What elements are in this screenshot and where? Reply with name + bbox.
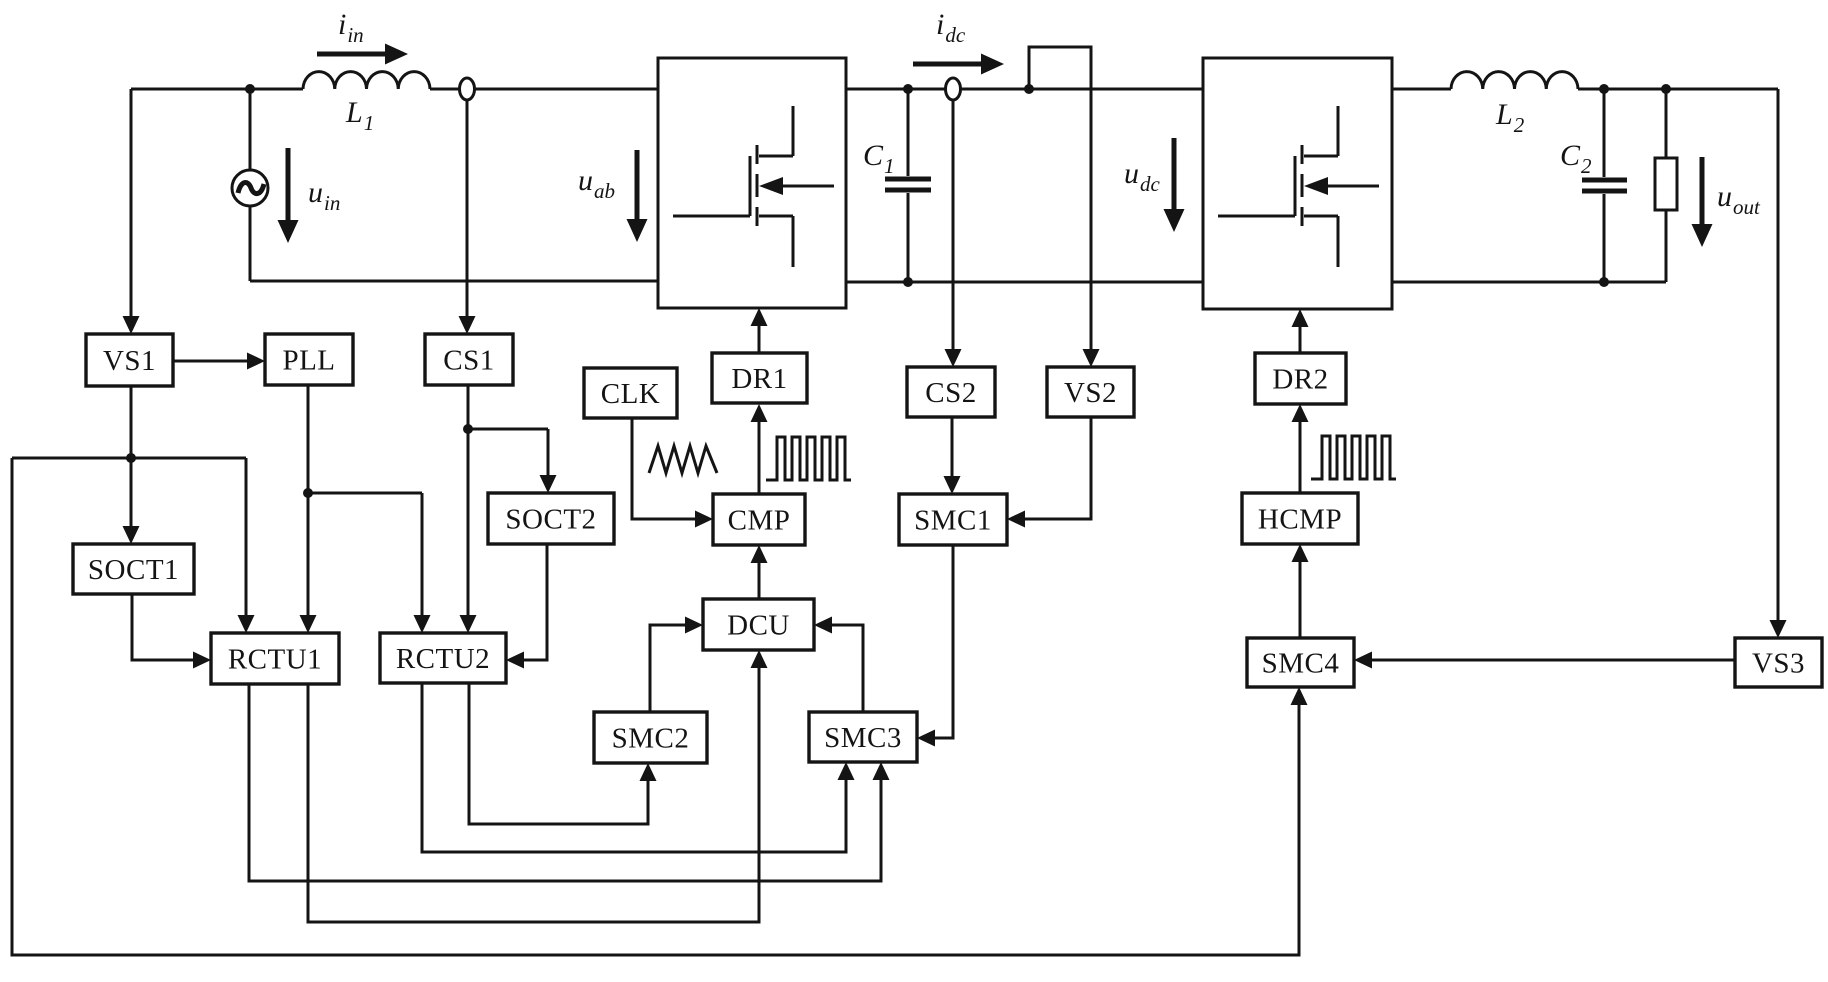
svg-text:CS1: CS1 [443,345,494,377]
svg-text:DR2: DR2 [1272,364,1328,396]
svg-text:RCTU2: RCTU2 [396,643,490,675]
svg-text:SMC3: SMC3 [824,722,902,754]
svg-text:PLL: PLL [282,345,335,377]
svg-text:DCU: DCU [727,610,790,642]
svg-text:VS1: VS1 [103,345,156,377]
svg-text:SOCT1: SOCT1 [88,554,179,586]
svg-text:RCTU1: RCTU1 [228,644,322,676]
svg-text:DR1: DR1 [731,363,787,395]
svg-text:SMC1: SMC1 [914,505,992,537]
svg-text:VS2: VS2 [1064,377,1117,409]
svg-text:SOCT2: SOCT2 [505,504,596,536]
svg-text:HCMP: HCMP [1258,504,1342,536]
svg-text:SMC2: SMC2 [612,723,690,755]
svg-text:VS3: VS3 [1752,648,1805,680]
svg-text:CS2: CS2 [925,377,976,409]
svg-text:CLK: CLK [601,378,661,410]
svg-text:SMC4: SMC4 [1262,648,1340,680]
svg-text:CMP: CMP [728,505,791,537]
